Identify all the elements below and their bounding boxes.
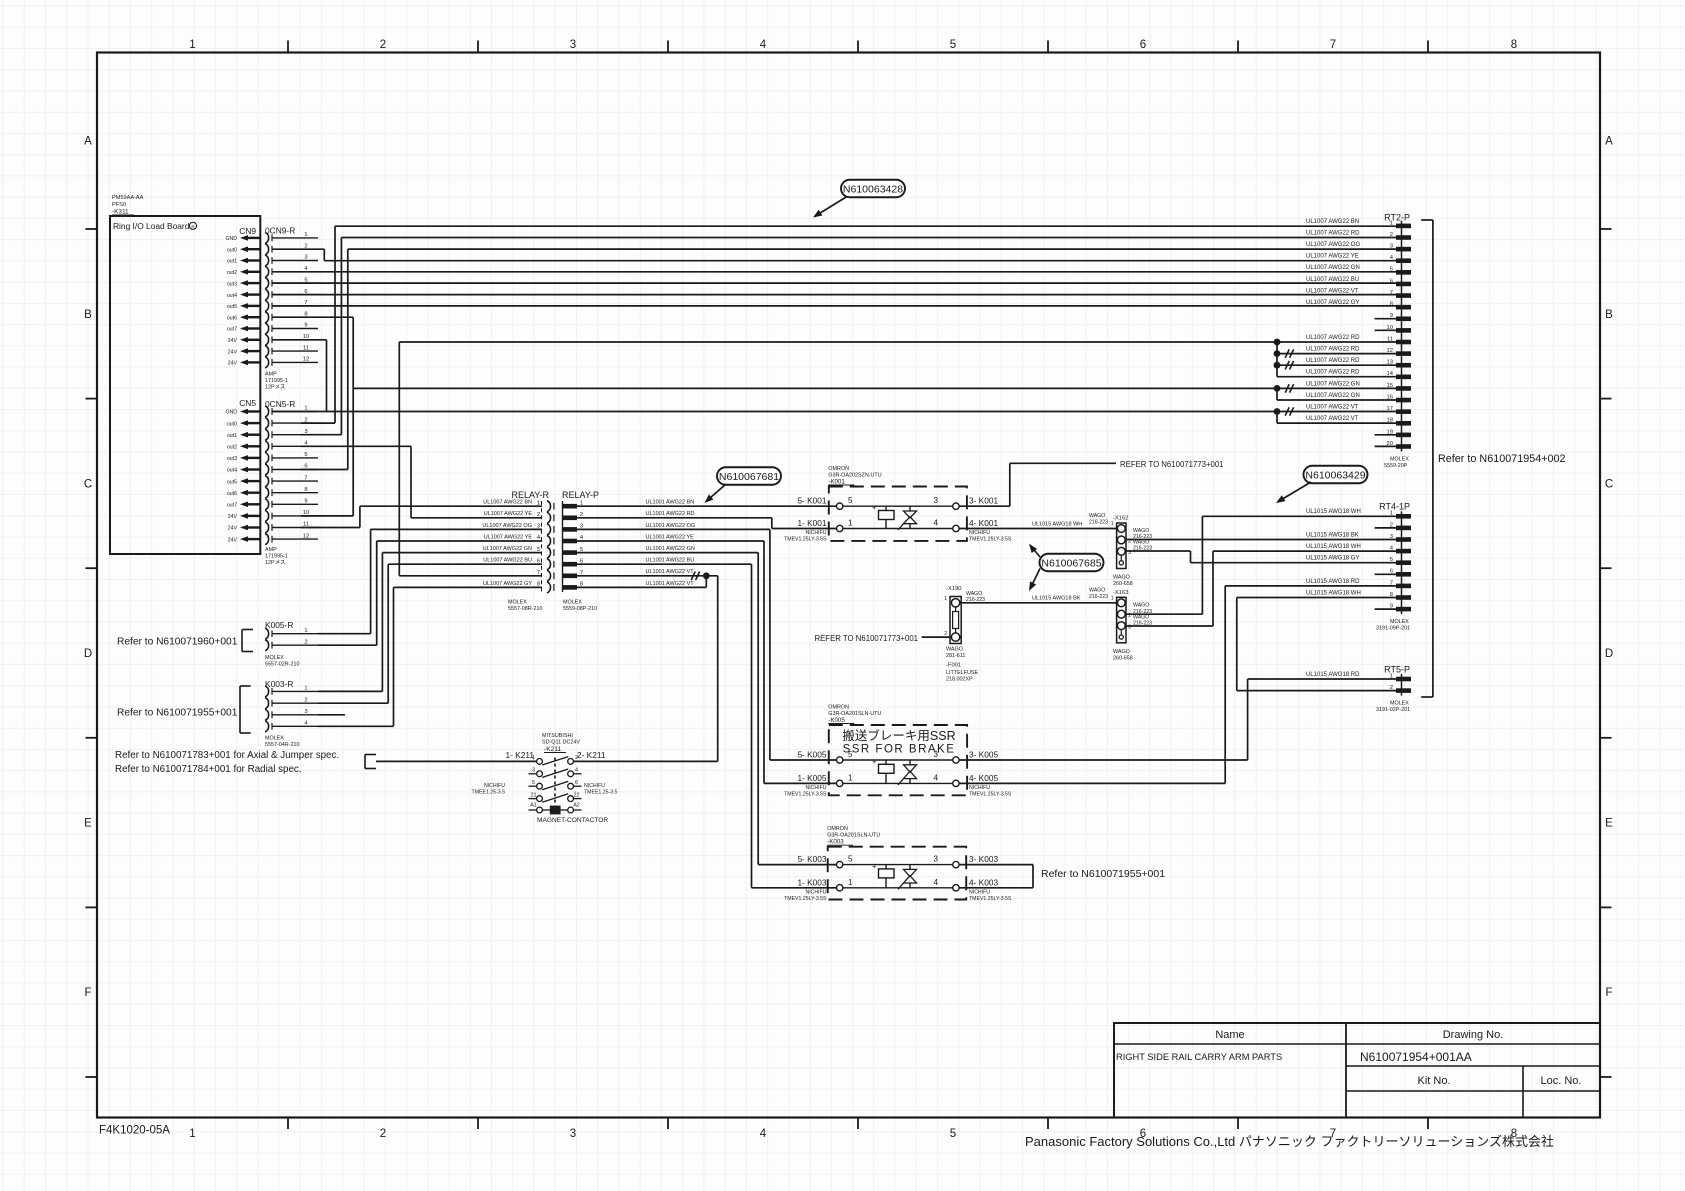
wire X163 p3 to RT4 p4 WH bbox=[1126, 551, 1396, 626]
svg-text:216-223: 216-223 bbox=[966, 597, 985, 603]
svg-text:WAGO: WAGO bbox=[1089, 588, 1105, 594]
svg-text:8: 8 bbox=[1390, 302, 1393, 308]
svg-text:WAGO: WAGO bbox=[946, 647, 963, 653]
board pins CN5 bbox=[225, 409, 260, 544]
svg-text:A: A bbox=[1605, 136, 1613, 148]
svg-text:3: 3 bbox=[537, 524, 540, 530]
svg-text:24V: 24V bbox=[228, 514, 238, 520]
svg-text:PFS0: PFS0 bbox=[112, 202, 126, 208]
svg-text:5557-08R-210: 5557-08R-210 bbox=[508, 606, 542, 612]
svg-text:5: 5 bbox=[950, 39, 956, 51]
svg-text:3: 3 bbox=[934, 855, 939, 864]
svg-text:20: 20 bbox=[1387, 441, 1393, 447]
svg-text:UL1007 AWG22 GY: UL1007 AWG22 GY bbox=[483, 581, 532, 587]
connector RT4-1P bbox=[1376, 502, 1411, 632]
svg-text:2: 2 bbox=[1390, 522, 1393, 528]
svg-text:RT2-P: RT2-P bbox=[1384, 213, 1410, 223]
svg-text:OMRON: OMRON bbox=[828, 705, 849, 711]
svg-text:A1: A1 bbox=[530, 802, 537, 808]
svg-text:CN9: CN9 bbox=[239, 226, 256, 236]
svg-text:14: 14 bbox=[1387, 371, 1394, 377]
svg-text:3: 3 bbox=[570, 39, 576, 51]
svg-text:3: 3 bbox=[532, 768, 535, 774]
svg-text:Kit No.: Kit No. bbox=[1417, 1075, 1450, 1087]
svg-text:UL1007 AWG22 BU: UL1007 AWG22 BU bbox=[483, 558, 532, 564]
svg-text:9: 9 bbox=[1390, 604, 1393, 610]
svg-text:MOLEX: MOLEX bbox=[265, 655, 284, 661]
connector 0CN5-R part labels bbox=[265, 547, 288, 566]
svg-text:3: 3 bbox=[580, 524, 583, 530]
svg-text:B: B bbox=[84, 309, 92, 321]
svg-text:1: 1 bbox=[848, 519, 853, 528]
svg-text:3: 3 bbox=[1128, 625, 1131, 631]
svg-text:5557-04R-210: 5557-04R-210 bbox=[265, 742, 299, 748]
svg-text:out4: out4 bbox=[227, 468, 237, 474]
connector 0CN5-R bbox=[265, 399, 318, 545]
connector RELAY-R bbox=[508, 490, 554, 612]
svg-text:-F001: -F001 bbox=[946, 663, 961, 669]
svg-text:WAGO: WAGO bbox=[1133, 614, 1149, 620]
wire 0CN5 p6 to RT2 p3 OG bbox=[301, 249, 1396, 469]
wire 0CN5 p2 to RT2 p1 BN bbox=[301, 226, 1396, 423]
svg-text:+: + bbox=[872, 757, 877, 766]
wire RELAY-P p5 to K003 pin5 bbox=[577, 553, 837, 865]
svg-text:-K001: -K001 bbox=[828, 479, 845, 486]
wire RELAY-P p2 to K001 pin1 bbox=[577, 518, 837, 529]
RT2 wire labels bbox=[1306, 219, 1360, 422]
svg-text:WAGO: WAGO bbox=[1113, 575, 1130, 581]
svg-text:RELAY-P: RELAY-P bbox=[562, 490, 599, 500]
wire 0CN5 p3 to RT2 p2 RD bbox=[301, 238, 1396, 435]
svg-text:216-223: 216-223 bbox=[1089, 594, 1108, 600]
wire RT4 p8 to RT5 p2 WH bbox=[1237, 598, 1396, 691]
wire K003 outputs to refer bracket bbox=[959, 865, 1033, 888]
terminal block X162 WAGO 260-658 bbox=[1113, 516, 1133, 588]
wire 0CN9 p4 to RT2 p5 GN bbox=[272, 271, 1396, 273]
svg-text:UL1015 AWG18 RD: UL1015 AWG18 RD bbox=[1306, 579, 1360, 585]
svg-text:Refer to N610071783+001 for Ax: Refer to N610071783+001 for Axial & Jump… bbox=[115, 750, 339, 761]
bracket refer to N610071954+002 bbox=[1421, 220, 1433, 697]
svg-text:12: 12 bbox=[303, 357, 309, 363]
svg-text:6: 6 bbox=[1390, 569, 1393, 575]
svg-text:3: 3 bbox=[304, 709, 307, 715]
fuse terminal X190 WAGO 281-611 with LITTELFUSE F001 bbox=[944, 586, 978, 683]
svg-text:UL1015 AWG18 GY: UL1015 AWG18 GY bbox=[1306, 556, 1359, 562]
svg-text:E: E bbox=[84, 818, 92, 830]
svg-text:5: 5 bbox=[848, 496, 853, 505]
svg-text:7: 7 bbox=[304, 475, 307, 481]
SSR K005 terminal labels bbox=[784, 749, 1012, 797]
wire RELAY-P p7/p8 VT pair to K211 bbox=[574, 576, 718, 762]
RELAY-P wire labels bbox=[646, 500, 696, 587]
svg-text:out0: out0 bbox=[227, 247, 237, 253]
connector RT2-P bbox=[1384, 213, 1411, 469]
svg-text:RT4-1P: RT4-1P bbox=[1379, 502, 1410, 512]
svg-text:216-223: 216-223 bbox=[1133, 546, 1152, 552]
svg-text:0CN9-R: 0CN9-R bbox=[265, 226, 295, 236]
svg-text:UL1007 AWG22 GN: UL1007 AWG22 GN bbox=[1306, 265, 1360, 271]
svg-text:Refer to N610071954+002: Refer to N610071954+002 bbox=[1438, 453, 1566, 465]
svg-text:12: 12 bbox=[303, 533, 309, 539]
svg-text:UL1007 AWG22 BN: UL1007 AWG22 BN bbox=[1306, 219, 1359, 225]
wire K211 pin1 to spec bracket bbox=[376, 760, 537, 762]
balloon N610067681 bbox=[705, 467, 782, 503]
svg-text:搬送ブレーキ用SSR: 搬送ブレーキ用SSR bbox=[842, 728, 955, 743]
connector K003-R bbox=[265, 679, 318, 732]
svg-text:5557-02R-210: 5557-02R-210 bbox=[265, 662, 299, 668]
connector RELAY-P bbox=[562, 490, 599, 612]
svg-text:10: 10 bbox=[1387, 325, 1393, 331]
svg-text:UL1007 AWG22 VT: UL1007 AWG22 VT bbox=[1306, 416, 1359, 422]
svg-text:2: 2 bbox=[1128, 538, 1131, 544]
wire fuse X190 top to X163 p1 BK bbox=[961, 602, 1117, 604]
svg-text:3: 3 bbox=[1390, 534, 1393, 540]
svg-text:UL1007 AWG22 GY: UL1007 AWG22 GY bbox=[1306, 300, 1359, 306]
svg-text:UL1007 AWG22 RD: UL1007 AWG22 RD bbox=[1306, 370, 1360, 376]
connector K005-R bbox=[265, 620, 318, 651]
svg-text:4: 4 bbox=[934, 519, 939, 528]
svg-text:CN5: CN5 bbox=[239, 398, 256, 408]
svg-text:13: 13 bbox=[1387, 360, 1393, 366]
svg-text:OMRON: OMRON bbox=[828, 466, 849, 472]
svg-text:281-611: 281-611 bbox=[946, 653, 965, 659]
connector 0CN9-R bbox=[265, 226, 318, 369]
svg-text:4: 4 bbox=[760, 1128, 767, 1140]
svg-text:5: 5 bbox=[848, 855, 853, 864]
svg-text:UL1015 AWG18 WH: UL1015 AWG18 WH bbox=[1306, 509, 1361, 515]
wire RT2 p17-p18 VT chain bbox=[1277, 412, 1396, 424]
connector K005-R part labels bbox=[265, 655, 299, 668]
svg-text:1: 1 bbox=[537, 500, 540, 506]
wire RELAY-P p4 to K005 pin1 bbox=[577, 541, 837, 783]
svg-text:AMP: AMP bbox=[265, 372, 277, 378]
wire K005 pin4 to RT4 p7 RD bbox=[959, 586, 1396, 784]
svg-text:6: 6 bbox=[1390, 278, 1393, 284]
svg-text:1- K005: 1- K005 bbox=[797, 773, 826, 783]
svg-text:6: 6 bbox=[580, 558, 583, 564]
svg-text:8: 8 bbox=[580, 582, 583, 588]
svg-text:out5: out5 bbox=[227, 479, 237, 485]
svg-text:11: 11 bbox=[303, 345, 309, 351]
svg-text:3- K003: 3- K003 bbox=[969, 854, 998, 864]
svg-text:8: 8 bbox=[1511, 39, 1517, 51]
svg-text:NICHIFU: NICHIFU bbox=[584, 783, 605, 789]
svg-text:UL1001 AWG22 BN: UL1001 AWG22 BN bbox=[646, 500, 695, 506]
svg-text:UL1015 AWG18 BK: UL1015 AWG18 BK bbox=[1032, 596, 1081, 602]
svg-text:N610067681: N610067681 bbox=[719, 471, 779, 483]
svg-text:WAGO: WAGO bbox=[966, 591, 982, 597]
wire K003-R p2 to RELAY-R p6 bbox=[318, 564, 542, 703]
junction dots RT2 RD/GN/VT groups bbox=[1274, 339, 1281, 415]
svg-text:NICHIFU: NICHIFU bbox=[484, 783, 505, 789]
svg-text:out6: out6 bbox=[227, 491, 237, 497]
svg-text:6: 6 bbox=[575, 780, 578, 786]
crossover slash RELAY-P p7 bbox=[691, 572, 695, 580]
wire K003-R p3 stub bbox=[318, 714, 345, 716]
svg-text:24V: 24V bbox=[228, 349, 238, 355]
svg-text:Name: Name bbox=[1215, 1029, 1244, 1041]
svg-text:1: 1 bbox=[1390, 511, 1393, 517]
svg-text:3: 3 bbox=[1390, 244, 1393, 250]
svg-text:UL1007 AWG22 VT: UL1007 AWG22 VT bbox=[1306, 288, 1359, 294]
svg-text:-X190: -X190 bbox=[946, 586, 961, 592]
svg-text:+: + bbox=[872, 862, 877, 871]
wire 0CN5 p4 to RELAY-R p2 bbox=[301, 446, 542, 518]
svg-text:WAGO: WAGO bbox=[1113, 649, 1130, 655]
svg-text:TMEV1.25LY-3.5S: TMEV1.25LY-3.5S bbox=[784, 791, 827, 797]
svg-text:1: 1 bbox=[1390, 220, 1393, 226]
svg-text:Refer to N610071955+001: Refer to N610071955+001 bbox=[117, 708, 238, 719]
svg-text:out6: out6 bbox=[227, 315, 237, 321]
svg-text:AMP: AMP bbox=[265, 547, 277, 553]
svg-text:UL1007 AWG22 RD: UL1007 AWG22 RD bbox=[1306, 358, 1360, 364]
svg-text:E: E bbox=[1605, 818, 1613, 830]
svg-text:2- K211: 2- K211 bbox=[577, 750, 606, 760]
svg-text:N610063428: N610063428 bbox=[843, 183, 903, 195]
wire 0CN9 p2 to RT2 p4 YE bbox=[272, 249, 1396, 261]
svg-text:UL1007 AWG22 YE: UL1007 AWG22 YE bbox=[484, 511, 533, 517]
svg-text:11: 11 bbox=[1387, 336, 1393, 342]
svg-text:171995-1: 171995-1 bbox=[265, 378, 288, 384]
SSR K005 OMRON G3R-OA201SLN-UTU (SSR FOR BRAKE) bbox=[828, 705, 967, 796]
svg-text:260-658: 260-658 bbox=[1113, 581, 1133, 587]
svg-text:12Pメス: 12Pメス bbox=[265, 384, 285, 391]
wire RELAY-P p3 to K005 pin5 bbox=[577, 529, 837, 760]
svg-text:UL1007 AWG22 VT: UL1007 AWG22 VT bbox=[1306, 405, 1359, 411]
svg-text:out1: out1 bbox=[227, 259, 237, 265]
svg-text:UL1007 AWG22 GN: UL1007 AWG22 GN bbox=[483, 546, 532, 552]
svg-text:out1: out1 bbox=[227, 433, 237, 439]
SSR K003 OMRON G3R-OA201SLN-UTU bbox=[827, 826, 966, 899]
svg-text:UL1007 AWG22 BU: UL1007 AWG22 BU bbox=[1306, 277, 1359, 283]
svg-text:1: 1 bbox=[848, 773, 853, 782]
svg-text:7: 7 bbox=[1390, 290, 1393, 296]
svg-text:1: 1 bbox=[580, 500, 583, 506]
svg-text:5- K001: 5- K001 bbox=[797, 496, 826, 506]
svg-text:N610063429: N610063429 bbox=[1305, 469, 1365, 481]
svg-text:5: 5 bbox=[1390, 267, 1393, 273]
svg-text:2: 2 bbox=[304, 697, 307, 703]
svg-text:17: 17 bbox=[1387, 406, 1393, 412]
svg-text:2: 2 bbox=[575, 755, 578, 761]
svg-text:1- K211: 1- K211 bbox=[506, 750, 535, 760]
bracket to K003-R bbox=[240, 686, 251, 733]
svg-text:B: B bbox=[1605, 309, 1613, 321]
svg-text:1: 1 bbox=[1111, 521, 1114, 527]
svg-text:NICHIFU: NICHIFU bbox=[805, 785, 826, 791]
connector K003-R part labels bbox=[265, 736, 299, 749]
wire 24V bus 0CN9 p8 / 0CN5 p10 to RT2 p15 GN bbox=[272, 317, 1277, 516]
svg-text:7: 7 bbox=[1330, 39, 1336, 51]
svg-text:1: 1 bbox=[304, 686, 307, 692]
svg-text:GND: GND bbox=[225, 410, 237, 416]
svg-text:N610071954+001AA: N610071954+001AA bbox=[1360, 1050, 1472, 1064]
wire RELAY-P p6 to K003 pin1 bbox=[577, 564, 837, 888]
svg-text:UL1015 AWG18 WH: UL1015 AWG18 WH bbox=[1306, 544, 1361, 550]
svg-text:1: 1 bbox=[1111, 596, 1114, 602]
svg-text:TMEV1.25LY-3.5S: TMEV1.25LY-3.5S bbox=[784, 537, 827, 543]
svg-text:216-223: 216-223 bbox=[1133, 621, 1152, 627]
svg-text:3- K001: 3- K001 bbox=[969, 496, 998, 506]
svg-text:4- K003: 4- K003 bbox=[969, 877, 998, 887]
svg-text:WAGO: WAGO bbox=[1133, 603, 1149, 609]
svg-text:6: 6 bbox=[1140, 39, 1146, 51]
svg-text:TMEE1.25-3.5: TMEE1.25-3.5 bbox=[584, 789, 618, 795]
svg-text:UL1007 AWG22 GN: UL1007 AWG22 GN bbox=[1306, 381, 1360, 387]
svg-text:5: 5 bbox=[537, 547, 540, 553]
svg-text:TMEV1.25LY-3.5S: TMEV1.25LY-3.5S bbox=[969, 791, 1012, 797]
balloon N610063428 bbox=[813, 180, 905, 218]
svg-text:TMEV1.25LY-3.5S: TMEV1.25LY-3.5S bbox=[784, 896, 827, 902]
svg-text:MAGNET-CONTACTOR: MAGNET-CONTACTOR bbox=[537, 817, 608, 824]
svg-text:7: 7 bbox=[1390, 580, 1393, 586]
svg-text:WAGO: WAGO bbox=[1089, 513, 1105, 519]
svg-text:SSR FOR BRAKE: SSR FOR BRAKE bbox=[843, 744, 956, 756]
svg-text:out2: out2 bbox=[227, 270, 237, 276]
connector RT5-P bbox=[1376, 665, 1411, 714]
magnet contactor K211 MITSUBISHI SD-Q11 bbox=[472, 733, 618, 824]
svg-text:UL1015 AWG18 WH: UL1015 AWG18 WH bbox=[1306, 590, 1361, 596]
svg-text:8: 8 bbox=[304, 487, 307, 493]
SSR K003 terminal labels bbox=[784, 854, 1012, 902]
svg-text:K005-R: K005-R bbox=[265, 620, 293, 630]
svg-text:4: 4 bbox=[934, 773, 939, 782]
svg-text:1: 1 bbox=[532, 755, 535, 761]
svg-text:24V: 24V bbox=[228, 338, 238, 344]
wire RT2 p15-p16 GN chain bbox=[1277, 388, 1396, 400]
svg-text:2: 2 bbox=[1390, 685, 1393, 691]
svg-text:UL1007 AWG22 GN: UL1007 AWG22 GN bbox=[1306, 393, 1360, 399]
svg-text:out4: out4 bbox=[227, 293, 237, 299]
svg-text:9: 9 bbox=[1390, 313, 1393, 319]
balloon N610067685 bbox=[1029, 544, 1104, 591]
svg-text:Drawing No.: Drawing No. bbox=[1443, 1029, 1504, 1041]
svg-text:UL1007 AWG22 BN: UL1007 AWG22 BN bbox=[483, 500, 532, 506]
svg-text:1: 1 bbox=[304, 232, 307, 238]
svg-text:OMRON: OMRON bbox=[827, 826, 848, 832]
wire K005-R p2 to RELAY-R p4 bbox=[318, 541, 542, 645]
svg-text:24V: 24V bbox=[228, 537, 238, 543]
svg-text:260-658: 260-658 bbox=[1113, 655, 1133, 661]
svg-text:Refer to N610071960+001: Refer to N610071960+001 bbox=[117, 637, 238, 648]
UL1015 wire labels middle bbox=[1032, 521, 1082, 601]
svg-text:Refer to N610071784+001 for Ra: Refer to N610071784+001 for Radial spec. bbox=[115, 764, 302, 775]
svg-text:12Pメス: 12Pメス bbox=[265, 559, 285, 566]
svg-text:NICHIFU: NICHIFU bbox=[805, 530, 826, 536]
title block bbox=[1114, 1023, 1600, 1118]
wire 0CN9 p6 to RT2 p7 VT bbox=[272, 294, 1396, 296]
svg-text:1: 1 bbox=[189, 39, 195, 51]
wire RT2 spare stubs bbox=[1375, 319, 1396, 447]
svg-text:171995-1: 171995-1 bbox=[265, 554, 288, 560]
svg-text:out3: out3 bbox=[227, 456, 237, 462]
crossover slashes RT2 bbox=[1285, 349, 1293, 415]
wire 0CN9 p7 to RT2 p8 GY bbox=[272, 305, 1396, 307]
svg-text:4: 4 bbox=[575, 768, 578, 774]
svg-text:3: 3 bbox=[1128, 550, 1131, 556]
svg-text:NICHIFU: NICHIFU bbox=[805, 889, 826, 895]
svg-text:+: + bbox=[872, 503, 877, 512]
wire RT2 p11-p14 RD chain bbox=[1277, 342, 1396, 377]
svg-text:REFER TO N610071773+001: REFER TO N610071773+001 bbox=[814, 634, 918, 643]
svg-text:24V: 24V bbox=[228, 526, 238, 532]
svg-text:WAGO: WAGO bbox=[1133, 539, 1149, 545]
svg-text:2: 2 bbox=[1390, 232, 1393, 238]
svg-text:out2: out2 bbox=[227, 445, 237, 451]
svg-text:2: 2 bbox=[380, 1128, 386, 1140]
svg-text:UL1001 AWG22 RD: UL1001 AWG22 RD bbox=[646, 511, 695, 517]
wire X163 p2 to RT4 p1 WH bbox=[1126, 516, 1396, 614]
bracket to K005-R bbox=[242, 630, 253, 652]
svg-text:-K311: -K311 bbox=[112, 209, 129, 216]
svg-text:F4K1020-05A: F4K1020-05A bbox=[99, 1125, 170, 1137]
svg-text:UL1015 AWG18 RD: UL1015 AWG18 RD bbox=[1306, 672, 1360, 678]
svg-text:3- K005: 3- K005 bbox=[969, 749, 998, 759]
svg-text:RT5-P: RT5-P bbox=[1384, 665, 1410, 675]
svg-text:5- K005: 5- K005 bbox=[797, 749, 826, 759]
svg-text:RELAY-R: RELAY-R bbox=[511, 490, 549, 500]
svg-text:Ring I/O Load Board: Ring I/O Load Board bbox=[113, 221, 190, 231]
svg-text:C: C bbox=[84, 478, 92, 490]
svg-text:1: 1 bbox=[189, 1128, 195, 1140]
wire X162 p3 to RT4 p5 GY bbox=[1126, 551, 1396, 563]
svg-text:5: 5 bbox=[950, 1128, 956, 1140]
svg-text:out3: out3 bbox=[227, 281, 237, 287]
svg-text:19: 19 bbox=[1387, 429, 1393, 435]
wire fuse X190 bottom to refer note bbox=[922, 636, 951, 638]
svg-text:UL1007 AWG22 OG: UL1007 AWG22 OG bbox=[1306, 242, 1360, 248]
svg-text:5- K003: 5- K003 bbox=[797, 854, 826, 864]
svg-text:6: 6 bbox=[537, 558, 540, 564]
connector 0CN9-R part labels bbox=[265, 372, 288, 391]
svg-text:UL1001 AWG22 OG: UL1001 AWG22 OG bbox=[646, 523, 696, 529]
svg-text:21: 21 bbox=[531, 792, 537, 798]
svg-text:-X162: -X162 bbox=[1113, 516, 1128, 522]
svg-text:-K211: -K211 bbox=[544, 746, 561, 753]
svg-text:PM59AA-AA: PM59AA-AA bbox=[112, 195, 144, 201]
svg-text:K003-R: K003-R bbox=[265, 679, 293, 689]
svg-text:2: 2 bbox=[537, 512, 540, 518]
svg-text:UL1001 AWG22 VT: UL1001 AWG22 VT bbox=[646, 581, 695, 587]
RT4/RT5 wire labels bbox=[1306, 509, 1361, 678]
wire K005 pin3 to RT5 p1 RD bbox=[959, 679, 1396, 760]
WAGO 216-223 crimp labels bbox=[966, 513, 1152, 631]
SSR K001 OMRON G3R-OA202SZN-UTU bbox=[828, 466, 967, 541]
svg-text:0CN5-R: 0CN5-R bbox=[265, 399, 295, 409]
RELAY-R wire labels bbox=[482, 500, 532, 587]
svg-text:UL1007 AWG22 RD: UL1007 AWG22 RD bbox=[1306, 335, 1360, 341]
svg-text:1: 1 bbox=[1390, 673, 1393, 679]
wire K003-R p1 to RELAY-R p5 bbox=[318, 553, 542, 692]
svg-text:UL1001 AWG22 BU: UL1001 AWG22 BU bbox=[646, 558, 695, 564]
svg-text:MOLEX: MOLEX bbox=[265, 736, 284, 742]
svg-text:NICHIFU: NICHIFU bbox=[969, 785, 990, 791]
svg-text:SD-Q11 DC24V: SD-Q11 DC24V bbox=[542, 740, 580, 746]
terminal block X163 WAGO 260-658 bbox=[1113, 590, 1133, 662]
refer note axial/radial spec bbox=[115, 750, 339, 775]
svg-text:5: 5 bbox=[1390, 557, 1393, 563]
svg-text:5: 5 bbox=[580, 547, 583, 553]
svg-text:22: 22 bbox=[574, 792, 580, 798]
svg-text:MOLEX: MOLEX bbox=[508, 600, 527, 606]
svg-text:3: 3 bbox=[570, 1128, 576, 1140]
svg-text:16: 16 bbox=[1387, 394, 1393, 400]
svg-text:UL1001 AWG22 VT: UL1001 AWG22 VT bbox=[646, 569, 695, 575]
svg-text:1: 1 bbox=[304, 628, 307, 634]
svg-text:8: 8 bbox=[537, 582, 540, 588]
svg-text:5: 5 bbox=[532, 780, 535, 786]
svg-text:NICHIFU: NICHIFU bbox=[969, 530, 990, 536]
